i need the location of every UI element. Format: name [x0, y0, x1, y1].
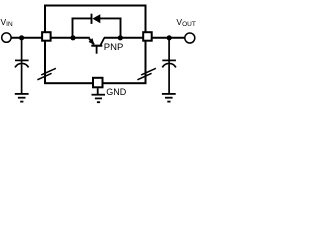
capacitor COUT — [162, 60, 176, 67]
transistor Q1 emitter line — [89, 39, 94, 45]
transistor Q1 collector line — [101, 38, 105, 46]
transistor Q1 base bar — [91, 45, 102, 47]
transistor Q1 base stub — [96, 47, 98, 54]
ground (GND pin) — [92, 95, 106, 103]
label GND — [106, 87, 126, 97]
wire input cap top lead — [21, 38, 23, 63]
node emitter junction — [70, 35, 75, 40]
label VIN — [1, 17, 13, 28]
terminal VOUT — [185, 33, 195, 43]
wire GND pad stub — [97, 88, 99, 94]
label PNP — [104, 42, 124, 53]
wire output cap bottom lead — [168, 64, 170, 93]
diode loop top wire — [72, 17, 92, 19]
break mark right edge — [137, 68, 156, 80]
node collector junction — [118, 35, 123, 40]
diode loop top right wire — [100, 17, 121, 19]
wire input cap bottom lead — [21, 64, 23, 93]
node output junction — [167, 35, 172, 40]
label VOUT — [176, 17, 195, 28]
pin pad GND — [93, 78, 103, 88]
diode loop right vertical wire — [120, 18, 122, 39]
wire collector rail to VOUT — [104, 37, 185, 39]
ground (input cap) — [15, 94, 29, 102]
transistor Q1 emitter arrowhead — [89, 38, 95, 45]
break mark left edge — [37, 68, 56, 80]
diode D1 cathode bar — [91, 14, 93, 24]
diode D1 triangle — [92, 14, 100, 23]
terminal VIN — [2, 33, 11, 42]
pin pad OUT — [143, 32, 152, 41]
node input junction — [19, 35, 24, 40]
wire output cap top lead — [168, 38, 170, 63]
IC package outline — [45, 6, 146, 84]
pin pad IN — [42, 32, 51, 41]
wire VIN rail to emitter — [11, 37, 90, 39]
capacitor CIN — [15, 60, 29, 67]
ground (output cap) — [162, 94, 176, 102]
diode loop left vertical wire — [72, 18, 74, 39]
